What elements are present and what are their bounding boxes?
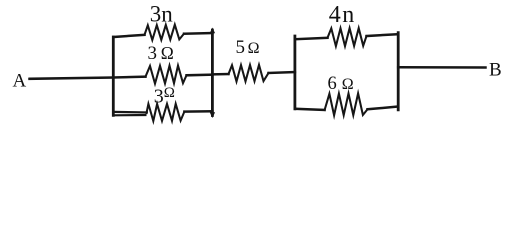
wire top-left rail — [113, 35, 144, 37]
node A — [13, 71, 27, 92]
value label 3n — [150, 2, 174, 27]
resistor 3Ω (bottom branch) — [147, 104, 185, 121]
svg-text:4n: 4n — [329, 2, 356, 28]
wire top-right rail — [184, 32, 212, 35]
wire top-left rail (right block) — [295, 38, 328, 39]
wire middle-right (resistor to bar) — [187, 73, 213, 76]
left junction bar (left side of 3-resistor parallel block) — [112, 37, 115, 115]
svg-text:3: 3 — [148, 43, 158, 64]
wire top-right rail (right block) — [367, 34, 399, 36]
value label 5 Ω — [236, 37, 260, 58]
svg-text:Ω: Ω — [164, 85, 175, 101]
value label 4n — [329, 2, 356, 28]
node B — [489, 60, 502, 81]
wire middle-left (bar to resistor) — [113, 75, 145, 78]
svg-text:Ω: Ω — [161, 43, 174, 63]
svg-text:5: 5 — [236, 37, 246, 58]
value label 6 Ω — [328, 74, 354, 94]
svg-text:3n: 3n — [150, 2, 174, 27]
left junction bar (right parallel block) — [293, 36, 296, 109]
resistor 3Ω (middle branch) — [146, 66, 187, 84]
wire bottom-left rail (right block) — [295, 109, 325, 110]
wire bottom-left rail (double-stroked in scan) — [113, 112, 147, 115]
resistor 5Ω (series) — [229, 65, 269, 82]
wire A to left junction bar — [30, 78, 114, 79]
wire bottom-right rail — [184, 110, 212, 113]
right junction bar (right parallel block) — [397, 33, 400, 110]
resistor 6Ω (bottom branch of right block) — [325, 93, 368, 115]
svg-text:B: B — [489, 60, 502, 81]
resistor 3n (top branch) — [145, 25, 185, 40]
right junction bar (right side of 3-resistor parallel block) — [210, 28, 215, 119]
wire right block to B — [398, 66, 485, 69]
svg-text:3: 3 — [154, 85, 164, 107]
svg-text:6: 6 — [328, 74, 337, 94]
wire 5Ω resistor to right block — [269, 71, 295, 74]
resistor 4n (top branch of right block) — [328, 28, 367, 46]
svg-text:Ω: Ω — [248, 40, 260, 57]
value label 3 Ω (middle) — [148, 43, 174, 64]
wire right bar to 5Ω resistor — [212, 73, 228, 76]
wire bottom-right rail (right block) — [368, 107, 399, 110]
svg-text:A: A — [13, 71, 27, 92]
svg-text:Ω: Ω — [342, 76, 354, 93]
value label 3Ω (bottom) — [154, 85, 175, 108]
